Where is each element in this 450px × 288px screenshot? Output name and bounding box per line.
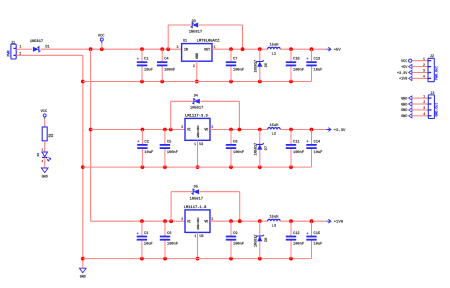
svg-text:GND: GND	[401, 109, 407, 113]
svg-text:VI: VI	[187, 128, 191, 132]
svg-text:1N5817: 1N5817	[254, 234, 258, 247]
svg-text:LM1117-1.8: LM1117-1.8	[184, 206, 208, 210]
svg-text:J3: J3	[430, 92, 434, 96]
svg-text:GND: GND	[80, 276, 86, 280]
junction C12	[289, 219, 293, 223]
wire from D3	[199, 24, 243, 26]
wire J2 pin 2	[412, 66, 427, 68]
junction C6 gnd	[163, 257, 167, 261]
svg-text:15uH: 15uH	[269, 216, 278, 220]
junction C1	[140, 47, 144, 51]
svg-text:U3: U3	[200, 235, 204, 239]
svg-text:D7: D7	[265, 146, 269, 150]
junction C1 gnd	[140, 80, 144, 84]
junction C4	[160, 47, 164, 51]
diode D7 1N5817 (catch)	[254, 143, 269, 156]
svg-text:C15: C15	[314, 232, 321, 236]
wire U3 GND pin	[197, 232, 199, 258]
svg-text:D3: D3	[192, 20, 196, 24]
svg-text:GND/ADJ: GND/ADJ	[196, 217, 200, 229]
capacitor C4 100nF	[157, 49, 175, 81]
junction C6	[163, 219, 167, 223]
capacitor C11 100nF	[286, 130, 304, 168]
diode D4 1N5817 (bypass)	[190, 94, 203, 110]
svg-text:+5V: +5V	[401, 66, 408, 70]
capacitor C13 10uF	[306, 49, 322, 81]
label GND (J3 pin 4)	[401, 114, 412, 120]
svg-text:L1: L1	[272, 52, 277, 56]
connector J3 (GND.Out)	[428, 92, 439, 119]
svg-text:LM1117-3.3: LM1117-3.3	[185, 114, 209, 118]
wire J1 pin2 to GND bus	[16, 54, 83, 56]
svg-text:1N5817: 1N5817	[30, 40, 43, 44]
junction C13	[310, 47, 314, 51]
svg-text:VO: VO	[204, 219, 208, 223]
svg-text:VI: VI	[187, 219, 191, 223]
svg-text:C1: C1	[144, 58, 149, 62]
wire top rail to U1 IN	[41, 48, 182, 50]
wire D3 left leg	[167, 25, 169, 49]
power flag VCC (LED chain)	[41, 110, 48, 119]
wire L2 to +3.3V label	[280, 129, 326, 131]
J3 pin numbers 1-4	[423, 94, 425, 116]
junction D4 right leg	[238, 128, 242, 132]
svg-text:100nF: 100nF	[164, 68, 175, 72]
wire stage3 input rail	[91, 220, 185, 222]
svg-text:C4: C4	[164, 58, 169, 62]
junction D4 left leg	[169, 128, 173, 132]
svg-text:100nF: 100nF	[233, 151, 244, 155]
junction U3 GND	[196, 257, 200, 261]
wire L1 to +5V label	[280, 48, 326, 50]
wire D5 left leg	[170, 192, 172, 222]
label +3.3V (J2)	[397, 70, 412, 76]
capacitor C12 100nF	[286, 221, 304, 258]
svg-text:IN: IN	[184, 48, 188, 52]
inductor L1 15uH	[268, 44, 281, 57]
junction D7 gnd	[258, 165, 262, 169]
wire D6 vertical	[259, 49, 261, 81]
junction C9	[229, 219, 233, 223]
svg-text:1N5817: 1N5817	[190, 197, 203, 201]
label GND (J3 pin 1)	[401, 96, 412, 102]
svg-text:GND: GND	[401, 115, 407, 119]
svg-text:PWR.Out: PWR.Out	[434, 66, 438, 80]
junction C10 gnd	[289, 80, 293, 84]
svg-text:GND: GND	[401, 103, 407, 107]
svg-text:PWR: PWR	[7, 50, 11, 56]
diode D5 1N5817 (bypass)	[190, 186, 203, 202]
svg-text:100nF: 100nF	[233, 68, 244, 72]
junction C5 gnd	[163, 165, 167, 169]
wire VCC bus vertical	[90, 49, 92, 221]
junction C12 gnd	[289, 257, 293, 261]
svg-text:GND.Out: GND.Out	[435, 103, 439, 117]
svg-text:VO: VO	[204, 128, 208, 132]
capacitor C10 100nF	[286, 49, 304, 81]
wire J3 pin 3	[412, 109, 428, 111]
svg-text:10uF: 10uF	[314, 151, 323, 155]
svg-text:1: 1	[19, 45, 21, 49]
junction C15	[310, 219, 314, 223]
ground (LED chain)	[41, 168, 48, 179]
diode D1 1N5817	[30, 40, 50, 52]
svg-text:3: 3	[181, 125, 183, 129]
wire U2 VO rail	[210, 129, 268, 131]
junction C5	[163, 128, 167, 132]
junction C9 gnd	[229, 257, 233, 261]
svg-text:+5V: +5V	[334, 49, 342, 53]
svg-text:1: 1	[194, 142, 196, 146]
svg-text:C2: C2	[144, 140, 148, 144]
power flag VCC (top)	[98, 35, 105, 44]
J1 pin numbers 1 2	[19, 45, 21, 56]
junction VCC bus / top rail	[89, 47, 93, 51]
svg-text:C7: C7	[233, 58, 237, 62]
junction C10	[289, 47, 293, 51]
wire J2 pin 4	[412, 77, 427, 79]
junction U1 GND	[195, 80, 199, 84]
wire D4 left leg	[170, 101, 172, 129]
ground (main)	[79, 268, 86, 279]
wire to D3 anode	[168, 24, 191, 26]
capacitor C5 100nF	[160, 130, 178, 168]
regulator U3 LM1117-1.8	[184, 206, 210, 239]
wire U3 VO rail	[210, 220, 268, 222]
wire D4 right leg	[238, 101, 240, 129]
wire VCC to R1	[44, 119, 46, 127]
junction C4 gnd	[160, 80, 164, 84]
junction D8 gnd	[258, 257, 262, 261]
wire VCC stem	[101, 43, 103, 49]
wire J3 pin 4	[412, 115, 428, 117]
svg-text:2: 2	[211, 125, 213, 129]
svg-text:L2: L2	[272, 133, 276, 137]
junction D5 left leg	[169, 219, 173, 223]
svg-text:J1: J1	[11, 42, 15, 46]
J2 pin numbers 1-4	[423, 57, 425, 79]
junction C11 gnd	[289, 165, 293, 169]
wire U2 GND pin	[197, 140, 199, 167]
wire J2 pin 3	[412, 72, 427, 74]
capacitor C9 100nF	[226, 221, 244, 258]
junction C11	[289, 128, 293, 132]
wire L3 to +1V8 label	[280, 220, 326, 222]
U3 pin numbers	[181, 217, 213, 238]
svg-text:VCC: VCC	[98, 35, 105, 39]
capacitor C3 10uF	[137, 221, 153, 258]
svg-text:10uF: 10uF	[144, 151, 153, 155]
power flag VCC (J2 pin1)	[401, 59, 412, 64]
svg-text:GND: GND	[401, 97, 407, 101]
regulator U1 LM78L05ACZ	[182, 40, 221, 62]
svg-text:100nF: 100nF	[293, 151, 304, 155]
svg-text:15uH: 15uH	[269, 44, 278, 48]
label GND (J3 pin 2)	[401, 102, 412, 108]
junction C14	[310, 128, 314, 132]
label GND (J3 pin 3)	[401, 108, 412, 114]
svg-text:10uF: 10uF	[144, 68, 153, 72]
svg-text:C13: C13	[314, 58, 321, 62]
wire to D5	[171, 191, 192, 193]
svg-text:C12: C12	[293, 232, 300, 236]
label +1V8 output	[326, 219, 343, 224]
wire stage1 GND rail	[83, 81, 312, 83]
svg-text:1N5817: 1N5817	[254, 60, 258, 73]
diode D6 1N5817 (catch)	[254, 60, 269, 73]
capacitor C14 10uF	[306, 130, 322, 168]
svg-text:C14: C14	[314, 140, 321, 144]
junction D6 gnd	[258, 80, 262, 84]
wire to D4	[171, 100, 193, 102]
U1 pin numbers	[176, 45, 215, 68]
diode D8 1N5817 (catch)	[254, 234, 269, 247]
label +5V (J2)	[401, 64, 412, 70]
svg-text:100nF: 100nF	[167, 243, 178, 247]
svg-text:100nF: 100nF	[233, 243, 244, 247]
junction VCC stem	[100, 47, 104, 51]
junction VCC bus / stage2 rail	[89, 128, 93, 132]
svg-text:D5: D5	[194, 186, 198, 190]
svg-text:OUT: OUT	[204, 48, 210, 52]
svg-text:U2: U2	[199, 143, 203, 147]
wire from D5	[200, 191, 240, 193]
svg-text:L3: L3	[272, 224, 276, 228]
capacitor C15 10uF	[306, 221, 322, 258]
connector J1 (PWR input)	[7, 42, 16, 59]
capacitor C6 100nF	[160, 221, 178, 258]
label +3.3V output	[326, 128, 346, 133]
junction D3 left leg	[166, 47, 170, 51]
wire J3 pin 1	[412, 97, 428, 99]
junction C8	[229, 128, 233, 132]
svg-text:C6: C6	[167, 232, 171, 236]
capacitor C7 100nF	[226, 49, 244, 81]
junction D8	[258, 219, 262, 223]
svg-text:10uF: 10uF	[314, 68, 323, 72]
wire from D4	[201, 100, 240, 102]
wire stage3 GND rail	[83, 258, 312, 260]
wire R1 to D2	[44, 141, 46, 152]
connector J2 (PWR.Out)	[427, 55, 438, 81]
svg-text:D8: D8	[265, 238, 269, 242]
junction C2 gnd	[141, 165, 145, 169]
svg-text:3: 3	[176, 45, 178, 49]
junction C3 gnd	[140, 257, 144, 261]
svg-text:C3: C3	[144, 232, 148, 236]
svg-text:C9: C9	[233, 232, 237, 236]
svg-text:+3.3V: +3.3V	[334, 129, 346, 133]
svg-text:GND: GND	[42, 175, 48, 179]
wire	[16, 48, 32, 50]
junction C7 gnd	[229, 80, 233, 84]
svg-text:100nF: 100nF	[293, 68, 304, 72]
svg-text:C8: C8	[233, 140, 237, 144]
svg-text:15uH: 15uH	[269, 124, 278, 128]
svg-text:100nF: 100nF	[293, 243, 304, 247]
capacitor C8 100nF	[226, 130, 244, 168]
junction GND bus / stage1 gnd	[81, 80, 85, 84]
wire D7 vertical	[259, 130, 261, 168]
junction GND bus / stage2 gnd	[81, 165, 85, 169]
wire D5 right leg	[239, 192, 241, 222]
U2 pin numbers	[181, 125, 213, 146]
wire J3 pin 2	[412, 103, 428, 105]
junction U2 GND	[196, 165, 200, 169]
svg-text:1: 1	[194, 234, 196, 238]
svg-text:100nF: 100nF	[167, 151, 178, 155]
svg-text:D2: D2	[37, 153, 40, 157]
svg-text:GND/ADJ: GND/ADJ	[196, 125, 200, 137]
svg-text:1: 1	[214, 45, 216, 49]
wire U1 OUT rail	[212, 48, 268, 50]
svg-text:C10: C10	[293, 58, 300, 62]
LED D2	[37, 149, 51, 163]
svg-text:+1V8: +1V8	[399, 78, 407, 82]
junction D5 right leg	[238, 219, 242, 223]
capacitor C1 10uF	[137, 49, 153, 81]
junction GND bus / stage3 gnd	[81, 257, 85, 261]
svg-text:GND: GND	[195, 53, 199, 59]
svg-text:10uF: 10uF	[314, 243, 323, 247]
diode D3 1N5817 (bypass)	[189, 20, 202, 35]
svg-text:+3.3V: +3.3V	[397, 72, 408, 76]
svg-text:10uF: 10uF	[144, 243, 153, 247]
wire GND bus vertical	[82, 55, 84, 267]
svg-text:3: 3	[181, 217, 183, 221]
svg-text:1k: 1k	[50, 133, 54, 137]
wire J2 pin 1	[412, 60, 427, 62]
svg-text:VCC: VCC	[401, 60, 407, 64]
wire D8 vertical	[259, 221, 261, 258]
resistor R1	[42, 127, 54, 141]
svg-text:D4: D4	[194, 94, 198, 98]
wire U1 GND pin	[196, 61, 198, 81]
svg-text:1N5817: 1N5817	[190, 107, 203, 111]
junction C7	[229, 47, 233, 51]
wire stage2 input rail	[91, 129, 185, 131]
svg-text:C5: C5	[167, 140, 171, 144]
capacitor C2 10uF	[137, 130, 153, 168]
svg-text:U1: U1	[183, 40, 187, 44]
svg-text:2: 2	[193, 64, 195, 68]
junction D3 right leg	[241, 47, 245, 51]
inductor L2 15uH	[268, 124, 281, 137]
wire D2 to GND	[44, 157, 46, 167]
label +1V8 (J2)	[399, 76, 412, 82]
junction C2	[141, 128, 145, 132]
svg-text:LM78L05ACZ: LM78L05ACZ	[197, 40, 221, 44]
svg-text:1N5817: 1N5817	[254, 143, 258, 156]
svg-text:2: 2	[211, 217, 213, 221]
svg-text:VCC: VCC	[41, 110, 48, 114]
junction C8 gnd	[229, 165, 233, 169]
junction C3	[140, 219, 144, 223]
wire stage2 GND rail	[83, 166, 312, 168]
regulator U2 LM1117-3.3	[185, 114, 210, 147]
junction D6	[258, 47, 262, 51]
wire D3 right leg	[242, 25, 244, 49]
junction D7	[258, 128, 262, 132]
svg-text:C11: C11	[293, 140, 300, 144]
svg-text:1N5817: 1N5817	[189, 31, 202, 35]
svg-text:J2: J2	[430, 55, 434, 59]
inductor L3 15uH	[268, 216, 281, 229]
label +5V output	[326, 47, 341, 52]
svg-text:D6: D6	[265, 63, 269, 67]
svg-text:+1V8: +1V8	[334, 221, 344, 225]
